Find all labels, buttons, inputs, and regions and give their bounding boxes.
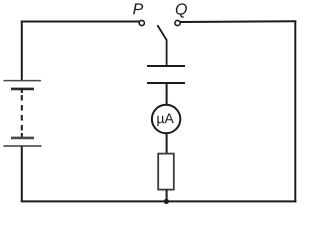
battery B1 bottom cell short plate [11, 137, 34, 140]
capacitor C1 top plate [147, 65, 185, 67]
wire left side upper [21, 21, 23, 81]
microammeter M1 body [152, 105, 180, 133]
node P terminal [139, 20, 144, 25]
battery B1 top cell long plate [4, 80, 42, 82]
wire left side lower [21, 146, 23, 202]
switch S1 lever (open) [157, 25, 166, 66]
capacitor C1 bottom plate [147, 82, 185, 84]
wire resistor to bottom [166, 190, 168, 202]
wire meter to resistor [166, 133, 168, 154]
wire stub below top cell [21, 89, 23, 93]
battery B1 bottom cell long plate [4, 145, 42, 147]
battery B1 top cell short plate [11, 88, 34, 91]
label P [133, 3, 143, 14]
wire capacitor to meter [166, 83, 168, 105]
wire stub above bottom cell [21, 133, 23, 138]
dashed link between cells [21, 95, 23, 134]
resistor R1 [158, 154, 174, 190]
wire bottom [21, 200, 297, 202]
node Q terminal [175, 20, 180, 25]
label Q [176, 3, 187, 17]
junction dot [164, 199, 169, 204]
wire top-left segment [21, 21, 140, 23]
wire right side [294, 21, 296, 203]
microammeter M1 label uA [157, 116, 164, 126]
wire top-right segment [180, 20, 296, 23]
